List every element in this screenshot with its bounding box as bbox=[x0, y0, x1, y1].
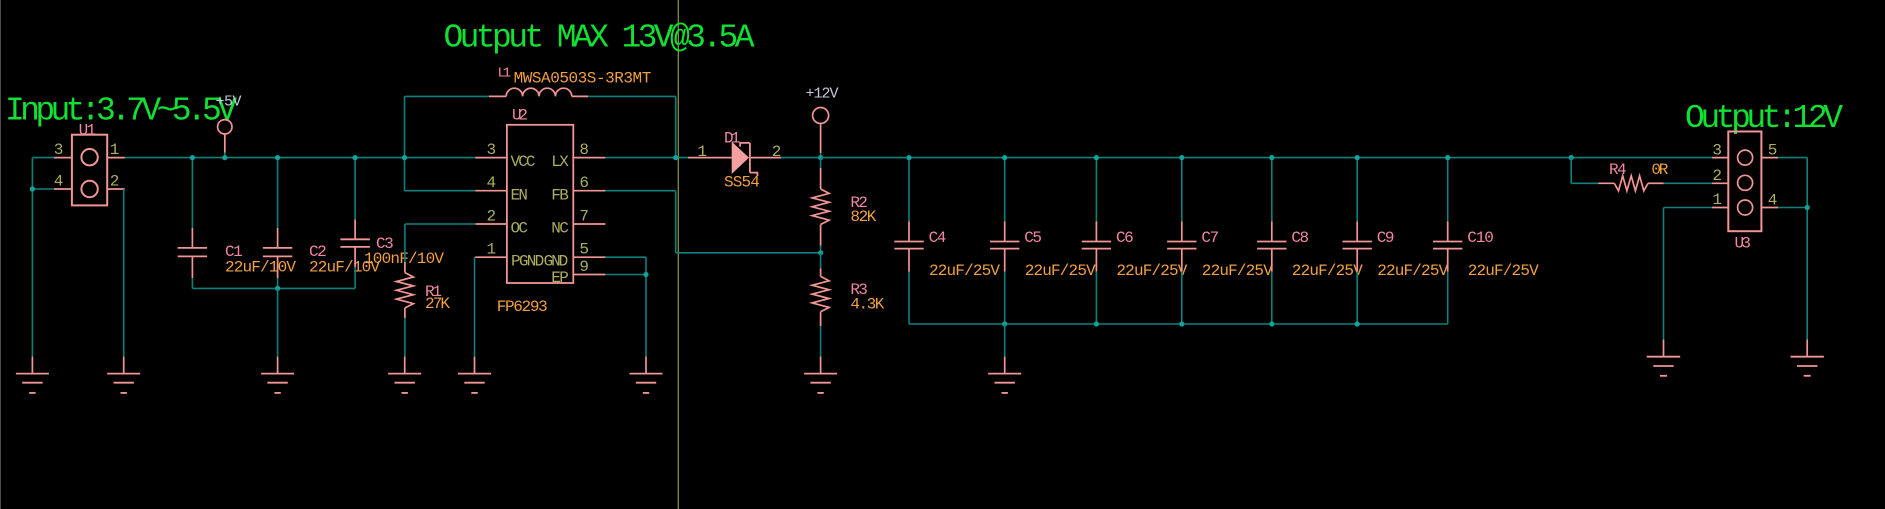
svg-text:2: 2 bbox=[486, 208, 496, 226]
svg-text:2: 2 bbox=[1712, 167, 1722, 185]
svg-text:5: 5 bbox=[1768, 142, 1778, 160]
svg-text:D1: D1 bbox=[724, 130, 741, 148]
svg-text:4: 4 bbox=[54, 173, 64, 191]
svg-text:Output:12V: Output:12V bbox=[1685, 100, 1843, 137]
svg-text:22uF/25V: 22uF/25V bbox=[1292, 262, 1363, 280]
window edge bbox=[0, 0, 2, 509]
svg-text:FB: FB bbox=[551, 186, 569, 204]
svg-text:8: 8 bbox=[579, 141, 589, 159]
svg-text:22uF/25V: 22uF/25V bbox=[929, 262, 1000, 280]
svg-text:EP: EP bbox=[551, 269, 569, 287]
wire FB to R2/R3 bbox=[605, 190, 675, 192]
svg-text:C5: C5 bbox=[1024, 229, 1042, 247]
wire OC to R1 bbox=[405, 223, 475, 225]
ground GND/EP bbox=[645, 357, 647, 374]
svg-text:+12V: +12V bbox=[806, 86, 839, 103]
resistor R2 82K bbox=[820, 158, 822, 168]
wire PGND to ground bbox=[474, 256, 477, 258]
svg-text:C9: C9 bbox=[1377, 229, 1395, 247]
svg-text:NC: NC bbox=[551, 220, 569, 238]
svg-text:6: 6 bbox=[579, 174, 589, 192]
svg-text:22uF/10V: 22uF/10V bbox=[225, 259, 296, 277]
svg-text:C6: C6 bbox=[1116, 229, 1134, 247]
svg-text:4: 4 bbox=[486, 174, 496, 192]
svg-text:OC: OC bbox=[511, 220, 529, 238]
svg-text:GND: GND bbox=[544, 253, 569, 271]
ground R3 bbox=[820, 357, 822, 374]
svg-text:22uF/25V: 22uF/25V bbox=[1377, 262, 1448, 280]
svg-text:4: 4 bbox=[1768, 191, 1778, 209]
svg-text:C4: C4 bbox=[929, 229, 947, 247]
wire GND/EP to ground bbox=[605, 256, 646, 258]
svg-text:U2: U2 bbox=[512, 107, 528, 125]
ground U3 right bbox=[1806, 340, 1808, 357]
svg-text:22uF/25V: 22uF/25V bbox=[1202, 262, 1273, 280]
svg-text:SS54: SS54 bbox=[724, 174, 760, 192]
inductor L1 bbox=[405, 95, 489, 97]
svg-text:C7: C7 bbox=[1201, 229, 1219, 247]
svg-text:0R: 0R bbox=[1651, 161, 1668, 179]
capacitor C8 bbox=[1271, 158, 1273, 222]
svg-text:22uF/25V: 22uF/25V bbox=[1468, 262, 1539, 280]
capacitor C2 bbox=[277, 158, 279, 228]
svg-text:4.3K: 4.3K bbox=[850, 296, 884, 314]
svg-text:C8: C8 bbox=[1291, 229, 1309, 247]
ground R1 bbox=[404, 357, 406, 374]
svg-text:7: 7 bbox=[579, 208, 589, 226]
svg-text:Input:3.7V~5.5V: Input:3.7V~5.5V bbox=[5, 93, 237, 130]
U3 pin stubs bbox=[1712, 157, 1728, 159]
capacitor C10 bbox=[1447, 158, 1449, 222]
wire LX to diode bbox=[605, 157, 688, 159]
resistor R3 4.3K bbox=[820, 253, 822, 269]
svg-text:9: 9 bbox=[579, 258, 589, 276]
diode D1 SS54 bbox=[688, 157, 732, 159]
ground PGND bbox=[474, 357, 476, 374]
U3 pin5/pin4 wires to ground bbox=[1778, 157, 1807, 159]
svg-text:U1: U1 bbox=[79, 122, 97, 140]
svg-text:1: 1 bbox=[1712, 191, 1722, 209]
capacitor C3 bbox=[354, 158, 356, 220]
svg-text:L1: L1 bbox=[498, 65, 512, 81]
svg-text:EN: EN bbox=[511, 186, 529, 204]
svg-text:U3: U3 bbox=[1735, 235, 1752, 253]
wire output caps bottom rail bbox=[909, 323, 1448, 325]
svg-text:3: 3 bbox=[1712, 142, 1722, 160]
svg-text:1: 1 bbox=[486, 241, 496, 259]
capacitor C1 bbox=[191, 158, 193, 228]
ground U3 pin1 bbox=[1663, 340, 1665, 357]
svg-text:3: 3 bbox=[486, 141, 496, 159]
svg-text:R4: R4 bbox=[1609, 161, 1627, 179]
svg-text:1: 1 bbox=[697, 143, 707, 161]
capacitor C7 bbox=[1181, 158, 1183, 222]
svg-text:1: 1 bbox=[110, 141, 120, 159]
capacitor C4 bbox=[908, 158, 910, 222]
svg-text:C10: C10 bbox=[1467, 229, 1494, 247]
svg-text:VCC: VCC bbox=[511, 153, 536, 171]
capacitor C6 bbox=[1095, 158, 1097, 222]
svg-text:+5V: +5V bbox=[216, 94, 242, 111]
svg-text:22uF/25V: 22uF/25V bbox=[1116, 262, 1187, 280]
U3 pin1 wire to ground bbox=[1664, 207, 1713, 209]
wire main input rail bbox=[125, 157, 475, 159]
port +5V bbox=[218, 120, 232, 134]
U1 pin3/pin4 wires to ground bbox=[32, 157, 54, 159]
capacitor C9 bbox=[1356, 158, 1358, 222]
wire input caps bottom rail bbox=[192, 287, 355, 289]
svg-text:LX: LX bbox=[551, 153, 569, 171]
U2 pin stubs left bbox=[475, 157, 507, 159]
U1 pin2 wire to ground bbox=[124, 188, 125, 190]
ground output caps bbox=[1004, 357, 1006, 374]
svg-text:82K: 82K bbox=[850, 208, 876, 226]
connector U1 bbox=[72, 135, 107, 206]
wire output rail bbox=[821, 157, 1712, 159]
svg-text:PGND: PGND bbox=[511, 253, 544, 271]
ground U1 left bbox=[31, 357, 33, 374]
ground U1 pin2 bbox=[123, 357, 125, 374]
svg-text:MWSA0503S-3R3MT: MWSA0503S-3R3MT bbox=[514, 70, 652, 88]
svg-text:5: 5 bbox=[579, 241, 589, 259]
vertical olive sheet line bbox=[677, 0, 679, 509]
svg-text:22uF/25V: 22uF/25V bbox=[1025, 262, 1096, 280]
svg-text:Output MAX 13V@3.5A: Output MAX 13V@3.5A bbox=[444, 20, 755, 57]
svg-text:27K: 27K bbox=[425, 295, 450, 313]
op-amp U2 FP6293 box bbox=[507, 125, 573, 283]
svg-text:2: 2 bbox=[772, 143, 782, 161]
svg-text:2: 2 bbox=[110, 173, 120, 191]
wire L1/EN branch bbox=[404, 96, 406, 190]
connector U3 bbox=[1728, 132, 1761, 232]
U2 pin stubs right bbox=[573, 157, 605, 159]
resistor R1 27K bbox=[396, 273, 413, 308]
port +12V bbox=[813, 108, 829, 124]
svg-text:FP6293: FP6293 bbox=[497, 298, 548, 316]
capacitor C5 bbox=[1004, 158, 1006, 222]
ground input caps bbox=[277, 357, 279, 374]
resistor R4 0R bbox=[1569, 155, 1574, 160]
svg-text:3: 3 bbox=[54, 141, 64, 159]
